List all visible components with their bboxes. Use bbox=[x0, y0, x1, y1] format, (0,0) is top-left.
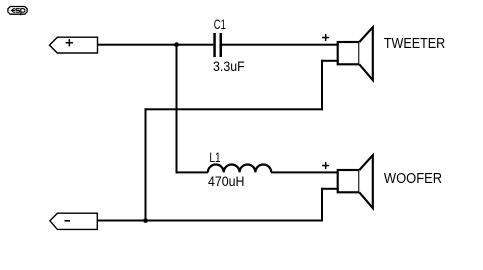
wire vertical from node A bbox=[176, 44, 178, 174]
svg-text:C1: C1 bbox=[214, 16, 226, 32]
svg-text:470uH: 470uH bbox=[208, 173, 245, 189]
speaker tweeter box bbox=[338, 42, 360, 64]
wire top right bbox=[222, 44, 339, 46]
ESP logo letters esp bbox=[11, 9, 25, 16]
svg-text:TWEETER: TWEETER bbox=[384, 36, 445, 52]
junction node B bbox=[143, 218, 148, 223]
plus sign woofer bbox=[322, 162, 329, 169]
svg-text:WOOFER: WOOFER bbox=[384, 171, 442, 187]
wire woofer return vertical bbox=[321, 188, 323, 222]
plus sign tweeter bbox=[322, 34, 329, 41]
wire woofer return stub bbox=[321, 188, 339, 190]
wire tweeter return vertical bbox=[321, 60, 323, 111]
wire middle horizontal bbox=[145, 108, 324, 110]
input terminal - bbox=[50, 213, 97, 229]
capacitor C1 bbox=[213, 33, 222, 57]
speaker tweeter horn bbox=[359, 27, 373, 80]
wire bottom bbox=[97, 220, 323, 222]
svg-text:L1: L1 bbox=[209, 149, 220, 165]
speaker woofer box bbox=[338, 170, 360, 192]
speaker woofer horn bbox=[359, 155, 373, 208]
ESP logo border bbox=[8, 7, 27, 15]
junction node A bbox=[174, 42, 179, 47]
wire inductor right bbox=[271, 171, 339, 173]
inductor L1 bbox=[208, 164, 271, 172]
wire inductor left bbox=[176, 171, 208, 173]
plus sign input bbox=[66, 39, 73, 46]
input terminal + bbox=[50, 37, 98, 53]
wire tweeter return stub bbox=[321, 60, 339, 62]
minus sign input bbox=[65, 220, 71, 222]
wire top left bbox=[97, 44, 213, 46]
wire left vertical bbox=[145, 108, 147, 221]
svg-text:3.3uF: 3.3uF bbox=[213, 58, 245, 74]
